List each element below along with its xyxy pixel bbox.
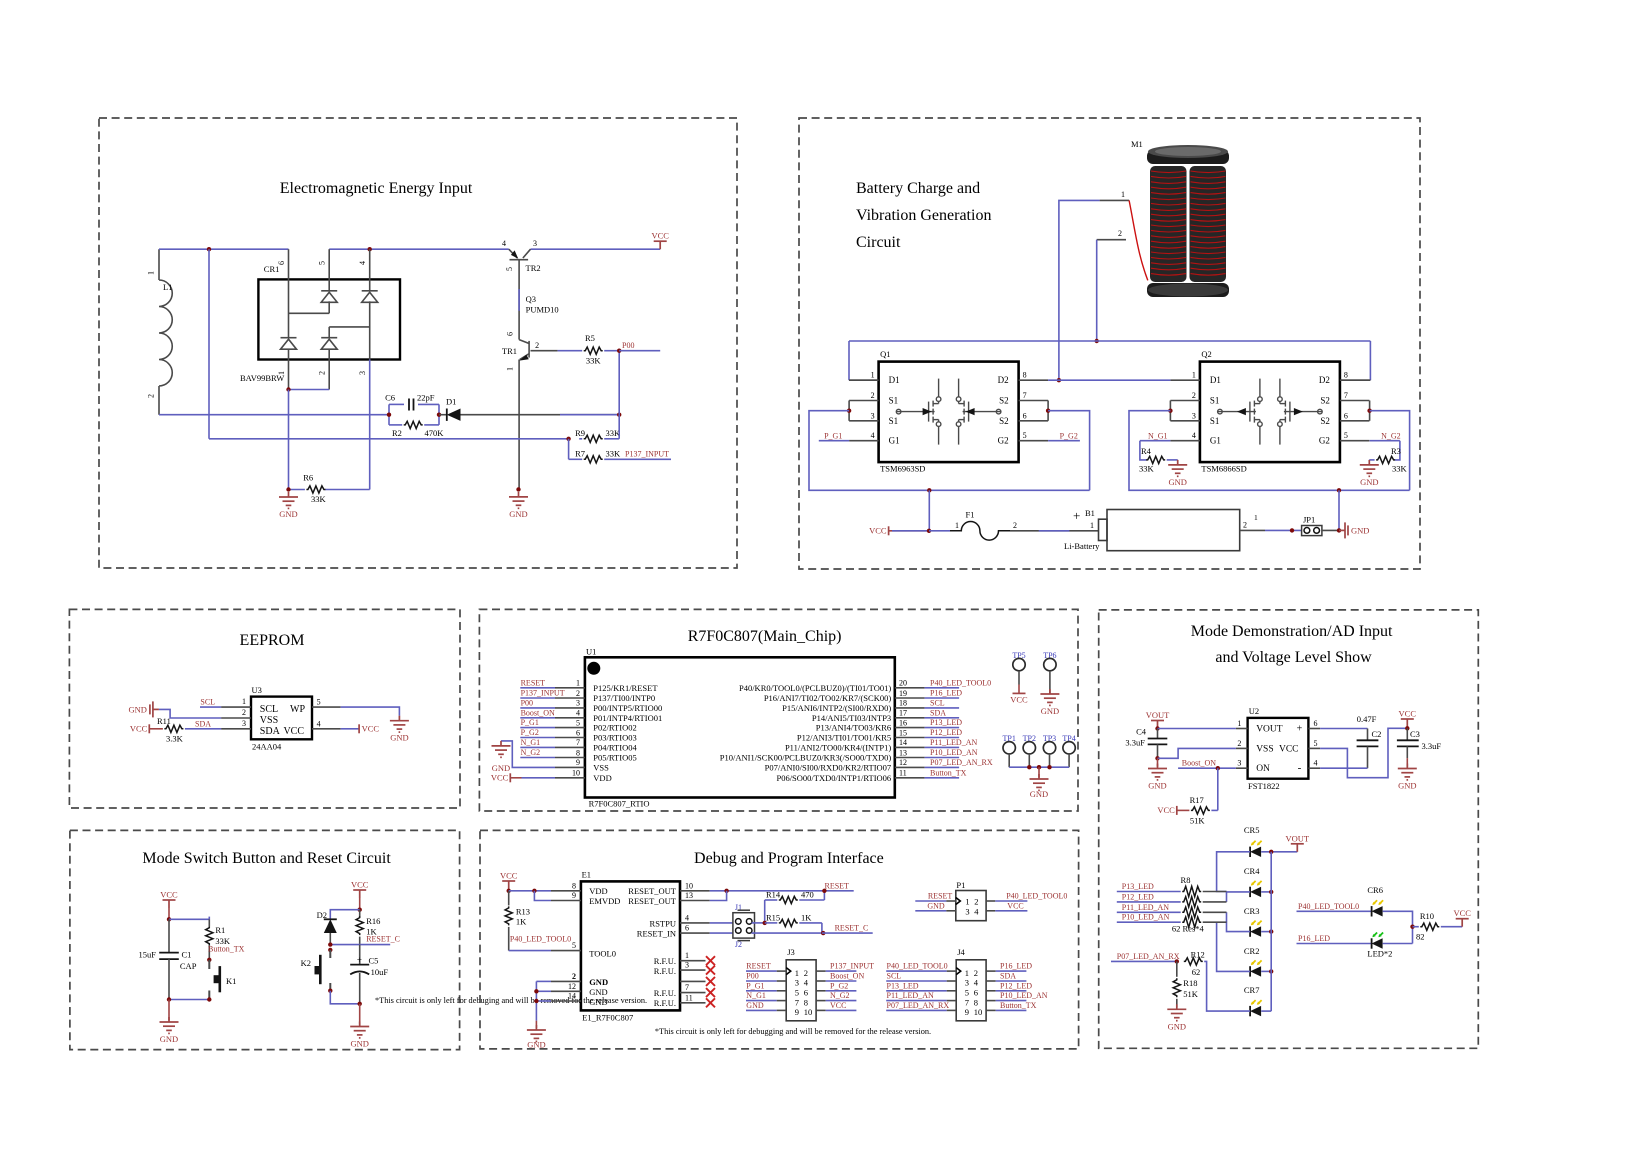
svg-text:P12_LED: P12_LED — [930, 728, 962, 737]
svg-text:P00/INTP5/RTIO00: P00/INTP5/RTIO00 — [593, 703, 662, 713]
svg-text:3: 3 — [871, 411, 875, 420]
Q1 pin 4 (G1) — [849, 440, 879, 442]
wire: CR7 left to R12 — [1204, 961, 1250, 1011]
svg-text:RESET_C: RESET_C — [835, 924, 869, 933]
wire: CR7 row to bus — [1261, 1010, 1271, 1012]
svg-text:SDA: SDA — [1000, 972, 1016, 981]
junction dot battery/JP1 — [1290, 528, 1294, 532]
svg-text:S1: S1 — [1210, 396, 1220, 406]
svg-text:19: 19 — [899, 689, 907, 698]
svg-text:GND: GND — [1168, 477, 1186, 487]
wire: P_G1 net — [819, 440, 849, 442]
E1 R.F.U. pin 11 — [680, 1002, 706, 1004]
svg-text:P16_LED: P16_LED — [1298, 934, 1330, 943]
svg-text:3: 3 — [1237, 759, 1241, 768]
svg-text:S2: S2 — [999, 396, 1009, 406]
section border: Electromagnetic Energy Input — [99, 118, 737, 568]
svg-text:15: 15 — [899, 728, 907, 737]
junction dot at P00 — [617, 349, 621, 353]
junction dot Q1 S1 — [847, 409, 851, 413]
svg-text:R6: R6 — [303, 473, 313, 483]
svg-text:*This circuit is only left for: *This circuit is only left for debugging… — [655, 1027, 931, 1036]
svg-text:3: 3 — [242, 719, 246, 728]
wire: Q1 D2 to Q2 D1 — [1048, 379, 1170, 381]
svg-text:CR5: CR5 — [1244, 825, 1260, 835]
svg-text:L1: L1 — [163, 282, 172, 292]
E1 pin 10 RESET_OUT — [680, 890, 710, 892]
U1 pin 15 (P12) — [895, 737, 925, 739]
svg-text:N_G1: N_G1 — [1148, 431, 1168, 440]
junction dot R10 node — [1410, 925, 1414, 929]
resistor R16 1K — [359, 910, 361, 917]
ground symbol GND (under TR1) — [509, 492, 528, 508]
svg-text:2: 2 — [242, 708, 246, 717]
svg-text:P_G1: P_G1 — [824, 431, 842, 440]
M1 pin 2 stub — [1097, 239, 1126, 241]
svg-text:+: + — [357, 955, 362, 965]
svg-text:N_G2: N_G2 — [830, 991, 850, 1000]
svg-text:P125/KR1/RESET: P125/KR1/RESET — [593, 683, 658, 693]
capacitor C3 3.3uF — [1406, 728, 1408, 740]
svg-text:VCC: VCC — [830, 1001, 846, 1010]
svg-text:4: 4 — [576, 709, 580, 718]
svg-text:2: 2 — [572, 972, 576, 981]
junction dots GND chain — [534, 989, 538, 993]
wire: long bus to R9 — [209, 438, 569, 440]
svg-text:2: 2 — [804, 968, 808, 978]
svg-text:4: 4 — [502, 239, 506, 248]
svg-text:P11_LED_AN: P11_LED_AN — [930, 738, 977, 747]
svg-text:P00: P00 — [521, 698, 533, 707]
section border: Debug and Program Interface — [480, 830, 1079, 1049]
wire: Q1 left loop to bottom bus — [809, 411, 1090, 491]
wire: RESET_C row — [330, 944, 390, 946]
resistor R13 1K — [508, 891, 510, 906]
capacitor C6 22pF with resistor R2 470K parallel — [388, 404, 390, 425]
svg-text:VOUT: VOUT — [1146, 710, 1170, 720]
MCU U1 R7F0C807_RTIO box — [585, 657, 895, 797]
wire: K2 bottom to GND node — [330, 991, 359, 1004]
svg-text:U2: U2 — [1249, 706, 1259, 716]
svg-text:5: 5 — [505, 267, 514, 271]
svg-text:8: 8 — [1344, 371, 1348, 380]
svg-text:5: 5 — [795, 988, 799, 998]
wire: CR1 pin5 to pin4 to TR2 — [329, 248, 509, 250]
svg-text:33K: 33K — [606, 449, 622, 459]
MOSFET Q2 TSM6866SD package box — [1200, 362, 1340, 463]
svg-text:1: 1 — [955, 521, 959, 530]
svg-text:22pF: 22pF — [417, 393, 435, 403]
svg-text:N_G2: N_G2 — [521, 748, 541, 757]
svg-text:GND: GND — [1168, 1021, 1186, 1031]
wire: CR2 left to R8 row4 — [1217, 922, 1251, 971]
svg-text:1: 1 — [277, 371, 286, 375]
svg-text:G2: G2 — [998, 436, 1009, 446]
svg-text:2: 2 — [974, 896, 978, 906]
svg-text:S1: S1 — [889, 396, 899, 406]
U2 pin 5 VCC — [1308, 747, 1320, 749]
svg-text:1K: 1K — [516, 917, 527, 927]
svg-text:1: 1 — [795, 968, 799, 978]
wire: M1 pin1 to Q1 D2 — [1059, 200, 1100, 380]
power symbol VCC (U3) — [341, 728, 359, 730]
svg-text:RESET_IN: RESET_IN — [637, 929, 676, 939]
svg-text:P16_LED: P16_LED — [930, 689, 962, 698]
svg-text:VCC: VCC — [500, 871, 518, 881]
svg-text:P137_INPUT: P137_INPUT — [625, 450, 669, 459]
ground symbol GND (R3) — [1360, 460, 1379, 476]
svg-text:3: 3 — [533, 239, 537, 248]
wire: TR2 collector to VCC — [531, 248, 661, 250]
U2 pin 3 ON — [1236, 767, 1248, 769]
ground symbol GND (R4) — [1168, 460, 1187, 476]
svg-text:0.47F: 0.47F — [1357, 714, 1377, 724]
CR1 diode B (pin4 top) — [362, 290, 378, 292]
Q1 pin 8 (D2) — [1019, 379, 1049, 381]
capacitor C4 3.3uF — [1157, 729, 1159, 739]
svg-text:Button_TX: Button_TX — [930, 768, 967, 777]
svg-text:R8: R8 — [1181, 875, 1191, 885]
wire: top bus right end down to Q2 pin8 — [1369, 341, 1371, 380]
junction dot CR2/bus — [1269, 969, 1273, 973]
E1 pin 6 RESET_IN — [680, 932, 710, 934]
svg-text:G1: G1 — [1210, 436, 1221, 446]
svg-text:1: 1 — [1237, 719, 1241, 728]
svg-text:P13_LED: P13_LED — [887, 981, 919, 990]
svg-text:GND: GND — [927, 901, 945, 910]
svg-text:RESET_OUT: RESET_OUT — [628, 896, 677, 906]
svg-text:2: 2 — [147, 394, 156, 398]
svg-text:3: 3 — [358, 371, 367, 375]
svg-text:CR7: CR7 — [1244, 985, 1260, 995]
svg-text:7: 7 — [795, 997, 799, 1007]
svg-text:GND: GND — [589, 997, 607, 1007]
svg-text:Boost_ON: Boost_ON — [830, 972, 864, 981]
svg-text:9: 9 — [795, 1007, 799, 1017]
power symbol VCC (reset branch) — [353, 890, 366, 898]
resistor R11 3.3K — [148, 724, 150, 733]
wire: U2 pin5 VCC route — [1320, 728, 1407, 777]
svg-text:N_G1: N_G1 — [521, 738, 541, 747]
svg-text:3: 3 — [576, 699, 580, 708]
svg-text:S2: S2 — [1320, 416, 1330, 426]
svg-text:2: 2 — [535, 341, 539, 350]
svg-text:1K: 1K — [801, 912, 812, 922]
Q1 pin 2 (S1) — [849, 400, 879, 402]
svg-text:6: 6 — [974, 988, 978, 998]
MOSFET Q1 TSM6963SD package box — [879, 362, 1019, 463]
wire: CR1 pin1 down to GND — [288, 390, 290, 490]
junction dot VOUT/C4 — [1155, 726, 1159, 730]
svg-text:82: 82 — [1416, 931, 1425, 941]
svg-text:R3: R3 — [1391, 446, 1401, 456]
svg-text:9: 9 — [576, 758, 580, 767]
junction dot Q1 S2 — [1046, 409, 1050, 413]
svg-text:G1: G1 — [889, 436, 900, 446]
svg-text:6: 6 — [804, 988, 808, 998]
U1 pin 11 (P06) — [895, 777, 925, 779]
svg-text:1: 1 — [1192, 371, 1196, 380]
svg-text:VSS: VSS — [260, 715, 278, 726]
power symbol VCC (top right) — [654, 241, 667, 249]
wire: U1 VSS to GND — [501, 741, 555, 768]
svg-text:GND: GND — [1351, 525, 1369, 535]
transistor TR2 (PNP half of Q3) — [509, 249, 531, 339]
svg-text:P11_LED_AN: P11_LED_AN — [1122, 903, 1169, 912]
svg-text:EMVDD: EMVDD — [589, 896, 620, 906]
svg-text:RESET: RESET — [746, 962, 771, 971]
svg-text:R1: R1 — [215, 925, 225, 935]
Q2 internal dual MOSFET symbol — [1218, 379, 1323, 445]
svg-text:JP1: JP1 — [1303, 515, 1315, 525]
junction dot CR4/bus — [1269, 890, 1273, 894]
E1 R.F.U. pin 3 — [680, 969, 706, 971]
resistor R7 33K — [584, 456, 603, 463]
svg-text:D1: D1 — [889, 375, 900, 385]
wire: Q3 interconnect (blue segment) — [518, 289, 520, 311]
svg-text:7: 7 — [685, 983, 689, 992]
U1 pin 4 (P01/INTP4/RTIO01) — [555, 717, 585, 719]
svg-text:P13_LED: P13_LED — [930, 718, 962, 727]
E1 pin 5 TOOL0 — [509, 950, 551, 952]
svg-text:E1: E1 — [582, 870, 591, 880]
svg-text:2: 2 — [1243, 521, 1247, 530]
wire: Boost_ON to U2 pin3 — [1178, 767, 1236, 769]
inductor L1 — [159, 249, 172, 415]
ground symbol GND (C4) — [1157, 758, 1159, 766]
junction dot C4 bottom — [1155, 756, 1159, 760]
svg-text:P11_LED_AN: P11_LED_AN — [887, 991, 934, 1000]
svg-text:GND: GND — [350, 1039, 368, 1049]
svg-text:VOUT: VOUT — [1256, 725, 1283, 735]
svg-text:P00: P00 — [746, 972, 758, 981]
svg-text:CR4: CR4 — [1244, 866, 1260, 876]
E1 pin 13 RESET_OUT — [680, 900, 710, 902]
wire: JP1 to GND — [1322, 529, 1339, 531]
wire: R4 to GND — [1167, 459, 1178, 461]
svg-text:4: 4 — [871, 431, 875, 440]
resistor R14 470 — [764, 900, 766, 923]
svg-text:WP: WP — [290, 704, 305, 715]
svg-text:6: 6 — [1314, 719, 1318, 728]
emulator E1 R7F0C807 box — [581, 881, 680, 1010]
svg-text:1: 1 — [965, 896, 969, 906]
U1 pin 8 (P05/RTIO05) — [555, 757, 585, 759]
wire: CR3 left to R8 row3 — [1227, 912, 1251, 931]
wire: CR4 row to bus — [1261, 891, 1271, 893]
U2 pin 2 VSS — [1236, 747, 1248, 749]
svg-text:3.3K: 3.3K — [166, 734, 184, 744]
svg-text:33K: 33K — [311, 494, 327, 504]
ground symbol GND (U3 WP) — [390, 716, 409, 732]
U1 pin 10 (VDD) — [555, 777, 585, 779]
Q2 pin 8 (D2) — [1340, 379, 1370, 381]
svg-text:D1: D1 — [446, 397, 456, 407]
junction dot JP1 right — [1337, 528, 1341, 532]
Q2 pin 7 (S2) — [1340, 400, 1370, 402]
svg-text:33K: 33K — [1139, 464, 1155, 474]
svg-text:51K: 51K — [1183, 989, 1199, 999]
section border: R7F0C807 Main Chip — [479, 609, 1078, 811]
svg-text:4: 4 — [685, 913, 689, 922]
svg-text:3: 3 — [965, 978, 969, 988]
svg-text:P137/TI00/INTP0: P137/TI00/INTP0 — [593, 693, 655, 703]
power symbol VCC (battery row) — [888, 526, 890, 535]
svg-text:P07_LED_AN_RX: P07_LED_AN_RX — [887, 1001, 950, 1010]
power ground symbol GND (U3 VSS) — [150, 701, 159, 717]
power symbol VCC (TP5) — [1013, 692, 1026, 694]
svg-text:20: 20 — [899, 679, 907, 688]
svg-text:TOOL0: TOOL0 — [589, 949, 616, 959]
section border: EEPROM — [69, 609, 460, 808]
svg-text:VCC: VCC — [1157, 805, 1175, 815]
svg-text:P01/INTP4/RTIO01: P01/INTP4/RTIO01 — [593, 713, 662, 723]
svg-text:CR2: CR2 — [1244, 946, 1260, 956]
resistor R4 33K — [1146, 456, 1165, 463]
capacitor C1 15uF CAP — [168, 919, 170, 952]
Q1 pin 1 (D1) — [849, 379, 879, 381]
svg-text:12: 12 — [899, 758, 907, 767]
svg-text:3: 3 — [795, 978, 799, 988]
svg-text:R17: R17 — [1190, 795, 1204, 805]
svg-text:S1: S1 — [889, 416, 899, 426]
junction dot bottom bus / VCC branch — [927, 488, 931, 492]
svg-text:K2: K2 — [301, 958, 311, 968]
svg-text:C6: C6 — [385, 393, 395, 403]
svg-text:VCC: VCC — [491, 773, 509, 783]
svg-text:3: 3 — [1192, 411, 1196, 420]
U1 pin 13 (P10) — [895, 757, 925, 759]
svg-text:1: 1 — [1090, 521, 1094, 530]
Q1 pin 3 (S1) — [849, 420, 879, 422]
svg-text:CAP: CAP — [180, 961, 197, 971]
ground symbol GND (R18) — [1167, 1004, 1186, 1020]
U1 pin 17 (P14) — [895, 717, 925, 719]
E1 pin 4 RSTPU — [680, 922, 710, 924]
U1 pin 7 (P04/RTIO04) — [555, 746, 585, 748]
junction dot at CR1 pin1 — [286, 387, 290, 391]
svg-text:R4: R4 — [1141, 446, 1152, 456]
svg-text:P1: P1 — [956, 880, 965, 890]
svg-text:VCC: VCC — [362, 724, 380, 734]
svg-text:D2: D2 — [1319, 375, 1330, 385]
power symbol VOUT (C4) — [1151, 721, 1164, 729]
svg-text:5: 5 — [1344, 431, 1348, 440]
U1 pin 12 (P07) — [895, 766, 925, 768]
svg-text:GND: GND — [589, 977, 608, 987]
U1 pin 2 (P137/TI00/INTP0) — [555, 697, 585, 699]
junction dots TP bus — [1027, 765, 1031, 769]
svg-text:R7: R7 — [575, 449, 585, 459]
svg-text:2: 2 — [318, 371, 327, 375]
svg-text:2: 2 — [1237, 739, 1241, 748]
wire: K1 bottom to C1 bottom — [169, 999, 209, 1001]
svg-text:Debug and Program Interface: Debug and Program Interface — [694, 850, 884, 867]
svg-text:11: 11 — [899, 769, 907, 778]
svg-text:10: 10 — [974, 1007, 983, 1017]
svg-text:33K: 33K — [586, 356, 602, 366]
svg-text:R.F.U.: R.F.U. — [654, 956, 676, 966]
svg-text:1: 1 — [147, 271, 156, 275]
junction dot R12/R18 — [1175, 959, 1179, 963]
svg-text:RESET: RESET — [825, 881, 850, 890]
svg-text:10uF: 10uF — [371, 967, 389, 977]
wire: D1 to P00 node — [461, 414, 620, 416]
Q2 pin 1 (D1) — [1170, 379, 1200, 381]
wire: VSS to GND — [159, 709, 221, 718]
svg-text:N_G2: N_G2 — [1381, 431, 1401, 440]
power symbol VCC (R17) — [1176, 806, 1178, 815]
boost converter U2 FST1822 box — [1248, 718, 1309, 779]
U1 pin-1 marker dot — [587, 662, 600, 675]
wire: L1 top to CR1 pin6 — [159, 248, 289, 250]
bridge rectifier CR1 BAV99BRW — [258, 279, 400, 359]
Q2 pin 5 (G2) — [1340, 440, 1370, 442]
U3 pin 3 SDA — [221, 728, 251, 730]
wire: top bus — [849, 340, 1370, 342]
ground symbol GND (E1) — [535, 1021, 537, 1028]
svg-text:Boost_ON: Boost_ON — [521, 708, 555, 717]
wire: N_G2 net with R3 branch — [1370, 440, 1400, 442]
svg-text:P07_LED_AN_RX: P07_LED_AN_RX — [1117, 952, 1180, 961]
wire: E1 GND pins chained — [535, 981, 537, 1020]
svg-text:P10_LED_AN: P10_LED_AN — [1122, 913, 1170, 922]
svg-text:1: 1 — [685, 951, 689, 960]
junction dot CR5/VOUT — [1269, 850, 1273, 854]
svg-text:SDA: SDA — [930, 708, 946, 717]
svg-text:ON: ON — [1256, 764, 1270, 774]
svg-text:13: 13 — [899, 748, 907, 757]
svg-text:R.F.U.: R.F.U. — [654, 998, 676, 1008]
resistor R10 82 — [1420, 923, 1439, 930]
resistor R5 33K — [558, 350, 583, 352]
svg-text:VCC: VCC — [651, 231, 669, 241]
svg-text:CR3: CR3 — [1244, 906, 1260, 916]
resistor R1 33K — [208, 919, 210, 926]
svg-text:C2: C2 — [1372, 729, 1382, 739]
svg-text:9: 9 — [572, 891, 576, 900]
U1 pin 14 (P11) — [895, 746, 925, 748]
wire: U2 pin4 to C2 bottom — [1320, 767, 1367, 769]
svg-text:S1: S1 — [1210, 416, 1220, 426]
E1 R.F.U. pin 7 — [680, 992, 706, 994]
junction dot Q2 S2 — [1367, 409, 1371, 413]
CR1 diode C (pin1 bottom) — [281, 337, 297, 339]
svg-text:C1: C1 — [182, 950, 192, 960]
svg-text:U1: U1 — [586, 647, 596, 657]
ground symbol GND (reset branch) — [359, 1004, 361, 1025]
wire: Q2 right loop to bottom bus — [1370, 411, 1410, 491]
svg-text:VCC: VCC — [1453, 908, 1471, 918]
M1 red lead wire — [1129, 200, 1148, 280]
svg-text:VDD: VDD — [589, 886, 607, 896]
U1 pin 20 (P40) — [895, 687, 925, 689]
svg-text:SCL: SCL — [930, 698, 945, 707]
wire: green LED to R10 node — [1383, 943, 1413, 945]
junction dot B at CR1 pin4 — [368, 247, 372, 251]
svg-text:R14: R14 — [766, 890, 781, 900]
U1 pin 9 (VSS) — [555, 766, 585, 768]
svg-text:RSTPU: RSTPU — [650, 918, 676, 928]
svg-text:P16_LED: P16_LED — [1000, 962, 1032, 971]
svg-text:J2: J2 — [735, 940, 742, 949]
wire: fuse to battery — [1010, 530, 1099, 532]
svg-text:R.F.U.: R.F.U. — [654, 966, 676, 976]
resistor R17 51K — [1191, 807, 1210, 814]
junction dot Q1 D2 / M1 wire — [1057, 378, 1061, 382]
wire: VOUT to U2 pin1 — [1158, 728, 1236, 730]
svg-text:1: 1 — [506, 367, 515, 371]
